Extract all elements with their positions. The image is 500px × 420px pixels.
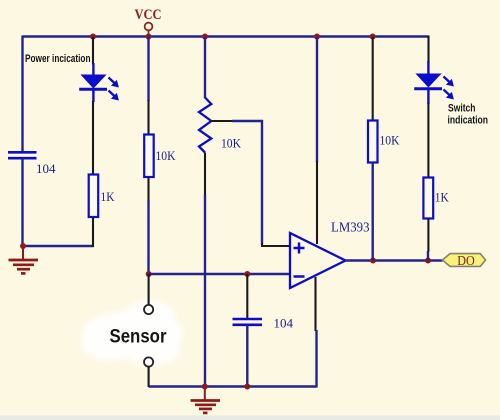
wire: R2 to sensor node [147, 200, 149, 274]
svg-text:10K: 10K [380, 133, 401, 148]
wire: C2 to bottom rail [246, 325, 248, 387]
node: junction sensor to inverting wire [146, 271, 152, 277]
resistor R2 10K (middle-left) [144, 135, 154, 178]
pin: switch LED anode (black) [427, 36, 429, 63]
svg-text:10K: 10K [221, 136, 242, 151]
capacitor C1 104 (left) [8, 152, 37, 158]
svg-text:104: 104 [274, 316, 294, 331]
wire: op-amp GND to bottom rail [315, 330, 317, 388]
pin: op-amp GND (black) [314, 277, 316, 331]
pin: op-amp V+ (black) [316, 161, 318, 244]
pin: sensor terminal 2 stub (black) [148, 367, 150, 387]
pin: R2 bottom (black) [147, 177, 149, 201]
wire: left vertical branch upper [21, 36, 23, 153]
LED D2 switch indication [414, 61, 454, 104]
node: rail junction at R4 [370, 34, 376, 40]
pin: sensor terminal 1 stub (black) [148, 274, 150, 305]
pin: potentiometer wiper (black) [211, 120, 234, 122]
pin: R2 top (black) [147, 100, 149, 135]
svg-text:DO: DO [457, 253, 475, 268]
svg-text:1K: 1K [101, 189, 116, 204]
wire: left vertical branch lower [21, 159, 23, 247]
resistor R1 1K (left) [89, 175, 99, 218]
svg-text:1K: 1K [435, 190, 450, 205]
wire: wiper across [232, 120, 263, 122]
node: junction at C2 [244, 271, 250, 277]
wire: bottom-left horizontal [23, 245, 94, 247]
node: junction bottom at C2 [244, 384, 250, 390]
wire: inverting input [149, 273, 290, 275]
svg-text:indication: indication [448, 115, 489, 127]
resistor R4 10K (right) [368, 121, 378, 163]
potentiometer RP1 10K zigzag [199, 98, 211, 153]
ground GND1 (bottom-left) [9, 246, 39, 273]
svg-text:10K: 10K [156, 148, 177, 163]
pin: R1 bottom (black) [92, 217, 94, 247]
node: rail junction at op-amp V+ [314, 34, 320, 40]
node: junction output at R4 [370, 258, 376, 264]
node: rail junction at power LED [90, 34, 96, 40]
power port VCC [135, 7, 162, 35]
ground GND2 (bottom-center) [191, 387, 221, 413]
wire: R5 to output [427, 251, 429, 261]
pin: potentiometer bottom (black) [204, 153, 206, 197]
svg-text:VCC: VCC [135, 7, 162, 23]
wire: wiper down to op-amp [261, 120, 263, 244]
op-amp U1 LM393 [290, 233, 346, 288]
terminal P2 circle bottom [144, 357, 153, 366]
port DO [442, 253, 485, 268]
terminal P1 circle top [144, 305, 153, 314]
node: junction bottom at pot [202, 384, 208, 390]
node: junction output at R5 [425, 258, 431, 264]
wire: potentiometer to bottom rail [204, 195, 206, 387]
wire: LED to R5 (black) [427, 103, 429, 178]
resistor R5 1K (right) [423, 178, 433, 219]
white blob behind Sensor [82, 301, 182, 365]
pin: R4 top (black) [372, 37, 374, 121]
capacitor C2 104 (bottom) [233, 319, 263, 325]
wire: rail to R2 [147, 37, 149, 101]
node: junction at left ground [20, 243, 26, 249]
wire: LED to R1 (black) [92, 101, 94, 175]
svg-text:Power incication: Power incication [25, 53, 91, 65]
svg-text:Switch: Switch [448, 103, 476, 115]
node: rail junction at potentiometer [202, 34, 208, 40]
wire: rail to op-amp V+ [316, 37, 318, 162]
LED D1 power indication [79, 63, 119, 102]
svg-text:Sensor: Sensor [110, 327, 168, 348]
wire: rail to potentiometer [204, 37, 206, 98]
pin: op-amp + input (black) [262, 243, 290, 246]
wire: bottom ground rail [149, 385, 317, 387]
wire: R4 bottom to output [372, 163, 374, 261]
svg-text:104: 104 [36, 161, 56, 176]
pin: power LED anode (black) [92, 37, 94, 65]
node: rail junction at R2 [146, 34, 152, 40]
wire: VCC top rail [23, 35, 429, 37]
svg-text:LM393: LM393 [331, 220, 370, 235]
pin: C2 top (black) [246, 274, 248, 319]
pin: R5 bottom (black) [427, 219, 429, 253]
wire: op-amp output [345, 259, 443, 261]
